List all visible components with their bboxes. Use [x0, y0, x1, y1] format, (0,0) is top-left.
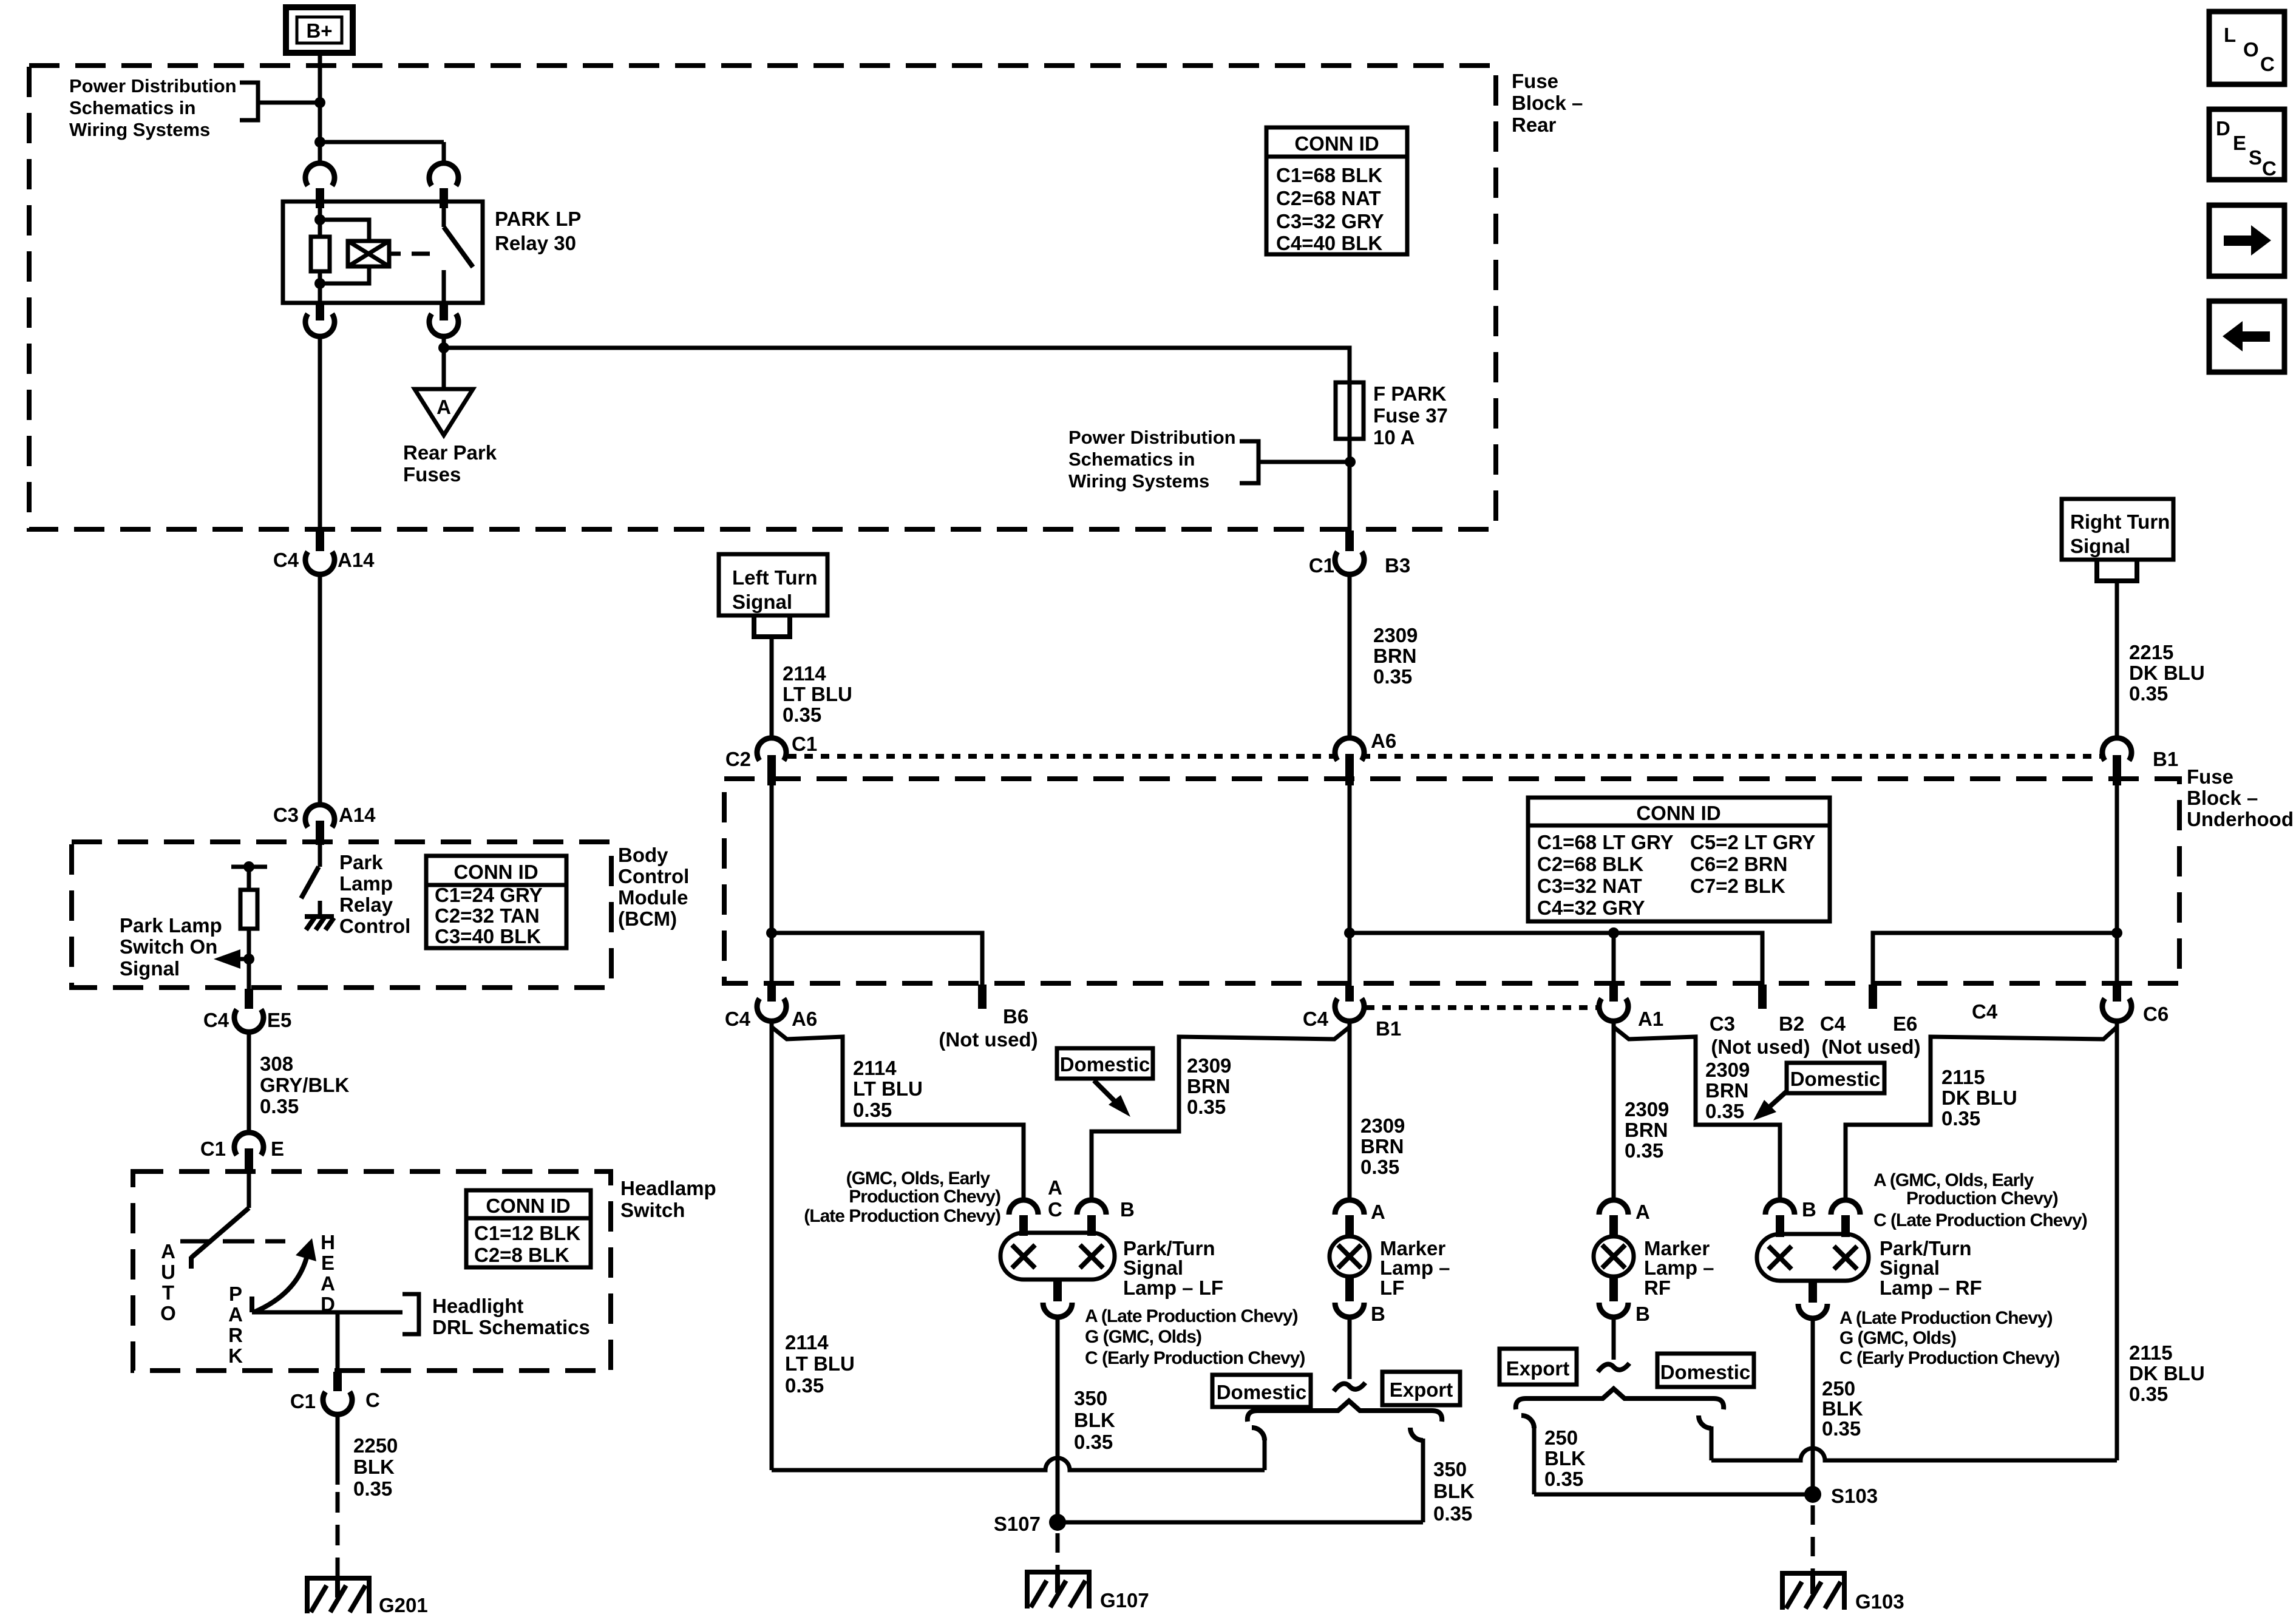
svg-text:C4=32 GRY: C4=32 GRY: [1537, 897, 1645, 919]
bracket right turn signal output: [2097, 560, 2137, 581]
svg-text:C5=2 LT GRY: C5=2 LT GRY: [1690, 831, 1815, 853]
svg-text:C4: C4: [203, 1009, 229, 1031]
wire C4/B1 down to marker lamp LF: [1348, 1021, 1352, 1200]
svg-text:F PARK: F PARK: [1373, 382, 1447, 405]
connector C4/A14 park lamp relay output: [273, 531, 375, 574]
connector pin A/C park turn LF: [1009, 1200, 1038, 1236]
svg-text:DK BLU: DK BLU: [2129, 662, 2205, 684]
node underhood bus right junction: [2111, 927, 2122, 938]
svg-text:DK BLU: DK BLU: [2129, 1362, 2205, 1385]
label ground G103: [1855, 1590, 1904, 1613]
wire end tilde marker LF: [1334, 1383, 1365, 1391]
wire underhood vertical right (B1 to C6): [2115, 785, 2119, 989]
wire marker LF B to variant splice: [1348, 1317, 1352, 1379]
wire resistor to C4/E5: [247, 929, 251, 990]
label HEAD position: [321, 1231, 335, 1315]
svg-text:Export: Export: [1390, 1378, 1453, 1401]
svg-text:10 A: 10 A: [1373, 426, 1415, 449]
label domestic variant splice LF box: [1212, 1375, 1311, 1407]
svg-text:C1: C1: [290, 1390, 316, 1412]
label variant GMC Olds RF: [1873, 1170, 2087, 1230]
svg-text:H: H: [321, 1231, 335, 1253]
svg-text:CONN ID: CONN ID: [486, 1195, 570, 1217]
lamp marker LF: [1330, 1236, 1370, 1276]
svg-text:0.35: 0.35: [1941, 1107, 1980, 1130]
svg-text:0.35: 0.35: [2129, 682, 2168, 705]
label pin B LF: [1120, 1198, 1135, 1221]
svg-text:B2: B2: [1779, 1012, 1804, 1035]
switch headlamp selector blade: [191, 1174, 249, 1269]
wire underhood vertical middle (A6 to C4/B1): [1348, 785, 1352, 989]
connector pin B marker LF: [1335, 1276, 1385, 1325]
svg-text:BLK: BLK: [353, 1456, 395, 1478]
svg-text:C1: C1: [792, 733, 817, 755]
connector pin B park turn LF: [1077, 1200, 1106, 1236]
wire A1 drop: [1612, 933, 1616, 989]
label pin variants out LF: [1085, 1306, 1305, 1368]
svg-text:PARK LP: PARK LP: [495, 208, 581, 230]
stub C4/E6 not used: [1820, 985, 1921, 1058]
connector pin relay coil top (86): [305, 163, 335, 208]
svg-text:A (Late Production Chevy): A (Late Production Chevy): [1839, 1308, 2053, 1328]
svg-text:Wiring Systems: Wiring Systems: [1068, 470, 1209, 492]
svg-text:E5: E5: [267, 1009, 291, 1031]
svg-text:Fuses: Fuses: [403, 463, 461, 486]
label pin C LF: [1048, 1198, 1062, 1221]
svg-text:C: C: [2262, 157, 2277, 180]
svg-text:R: R: [228, 1324, 243, 1346]
svg-text:BRN: BRN: [1705, 1079, 1749, 1102]
ground G107: [1025, 1572, 1092, 1609]
svg-text:Domestic: Domestic: [1060, 1053, 1150, 1076]
connector pin out park turn RF: [1798, 1281, 1827, 1318]
svg-text:350: 350: [1074, 1387, 1107, 1409]
svg-text:C4: C4: [273, 549, 299, 571]
switch relay contact: [444, 202, 473, 303]
label power distribution schematics (rear block): [1068, 427, 1236, 492]
svg-text:Control: Control: [618, 865, 689, 887]
brace variant splice RF: [1516, 1389, 1724, 1409]
connector C1/B3 fuse block rear output: [1309, 531, 1410, 577]
wire power distribution tap: [258, 101, 320, 105]
svg-text:Headlamp: Headlamp: [620, 1177, 716, 1199]
svg-text:Module: Module: [618, 886, 688, 909]
svg-text:C1: C1: [1309, 554, 1334, 577]
label wire 2309 BRN 0.35 (upper): [1373, 624, 1418, 688]
label wire 2114 LT BLU 0.35 (left vertical): [785, 1331, 855, 1397]
label park lamp switch on signal: [120, 914, 222, 980]
svg-text:2114: 2114: [783, 662, 826, 685]
svg-text:Rear Park: Rear Park: [403, 441, 497, 464]
label F PARK fuse: [1373, 382, 1448, 449]
svg-text:C2=8 BLK: C2=8 BLK: [474, 1244, 569, 1266]
svg-text:Power Distribution: Power Distribution: [1068, 427, 1236, 448]
svg-text:BRN: BRN: [1373, 645, 1417, 667]
reference box LOC: [2209, 12, 2284, 84]
label AUTO position: [160, 1240, 176, 1324]
connector pin C park turn RF: [1831, 1200, 1860, 1237]
wire mechanical link dashed: [180, 1239, 285, 1244]
label wire 250 BLK 0.35 (export): [1544, 1426, 1586, 1490]
svg-text:C6=2 BRN: C6=2 BRN: [1690, 853, 1787, 875]
ground G103: [1780, 1573, 1847, 1610]
wire export path LF to S107: [1058, 1520, 1423, 1525]
wire underhood bus middle to B2: [1350, 933, 1762, 989]
svg-text:Signal: Signal: [2070, 535, 2130, 557]
svg-text:Lamp: Lamp: [339, 872, 393, 895]
label wire 2114 LT BLU 0.35 (upper): [783, 662, 852, 726]
svg-text:A: A: [161, 1240, 175, 1263]
svg-text:LT BLU: LT BLU: [785, 1352, 855, 1375]
label export variant splice RF box: [1500, 1349, 1577, 1385]
connector pin out park turn LF: [1043, 1280, 1072, 1317]
wire C4/A6 diagonal branch to A/C pin: [772, 1027, 1024, 1200]
svg-text:Body: Body: [618, 844, 668, 866]
connector C4/A6 underhood output left: [725, 986, 817, 1030]
node underhood bus A1 junction: [1608, 927, 1619, 938]
lamp marker RF: [1594, 1236, 1634, 1276]
connector C1/C headlamp switch ground output: [290, 1372, 380, 1414]
label wire 2114 LT BLU 0.35 (branch): [853, 1057, 923, 1121]
svg-text:2309: 2309: [1187, 1054, 1231, 1077]
fuse block underhood dashed border: [724, 779, 2179, 983]
stub B6 not used: [939, 985, 1038, 1051]
wire 2114 LT BLU to C2/C1: [770, 637, 774, 739]
svg-text:0.35: 0.35: [1822, 1417, 1861, 1440]
wire resistor bottom: [318, 271, 322, 303]
wire domestic path RF to 2115 vertical (with hop): [1711, 1448, 2117, 1460]
svg-text:S103: S103: [1831, 1485, 1878, 1507]
CONN ID table fuse block rear: [1266, 127, 1407, 254]
svg-text:2115: 2115: [1941, 1066, 1985, 1088]
label power distribution schematics (top left): [69, 75, 237, 140]
bracket power distribution (top left): [240, 83, 258, 120]
connector pin A marker LF: [1335, 1200, 1385, 1238]
wire park lamp switch on signal arrow: [214, 949, 249, 969]
svg-text:E: E: [2233, 132, 2246, 154]
svg-text:A14: A14: [339, 804, 376, 826]
svg-text:B3: B3: [1385, 554, 1410, 577]
svg-text:Relay 30: Relay 30: [495, 232, 576, 254]
connector C3/A14 BCM input: [273, 804, 376, 845]
svg-text:Signal: Signal: [1880, 1256, 1940, 1279]
label wire 2250 BLK 0.35: [353, 1434, 398, 1500]
label pin A LF: [1048, 1176, 1062, 1199]
svg-text:C4: C4: [1972, 1000, 1998, 1023]
label pin variants out RF: [1839, 1308, 2059, 1368]
node park lamp switch signal junction: [243, 954, 254, 964]
wire PARK contact to output: [252, 1297, 402, 1373]
svg-text:C1: C1: [200, 1137, 226, 1160]
svg-text:Schematics in: Schematics in: [69, 97, 195, 118]
svg-text:2309: 2309: [1373, 624, 1418, 646]
wire underhood bus left to B6: [772, 933, 982, 989]
label body control module: [618, 844, 689, 930]
svg-text:BLK: BLK: [1074, 1409, 1115, 1431]
bracket power distribution (rear block): [1240, 441, 1258, 483]
wire 250 BLK from RF lamp to S103: [1811, 1318, 1815, 1494]
fuse F PARK Fuse 37 10A: [1336, 382, 1364, 439]
svg-text:C4: C4: [1820, 1012, 1846, 1035]
wire 308 GRY/BLK: [247, 1032, 251, 1135]
svg-text:Headlight: Headlight: [432, 1295, 523, 1317]
label export variant splice LF box: [1382, 1372, 1460, 1405]
svg-text:A: A: [1371, 1201, 1385, 1223]
svg-text:C2: C2: [725, 748, 751, 770]
svg-text:0.35: 0.35: [353, 1477, 392, 1500]
svg-text:Switch On: Switch On: [120, 935, 217, 958]
svg-text:A: A: [228, 1303, 243, 1326]
svg-text:2115: 2115: [2129, 1341, 2173, 1364]
connector C4/B1 underhood output middle: [1303, 986, 1401, 1040]
resistor relay internal: [311, 237, 330, 271]
svg-text:RF: RF: [1644, 1276, 1671, 1299]
svg-text:E6: E6: [1893, 1012, 1917, 1035]
svg-text:Export: Export: [1506, 1357, 1570, 1380]
svg-text:C7=2 BLK: C7=2 BLK: [1690, 875, 1785, 897]
svg-text:K: K: [228, 1344, 243, 1367]
svg-text:Fuse: Fuse: [1512, 70, 1558, 92]
wire export path RF to S103: [1534, 1493, 1813, 1497]
svg-text:A6: A6: [1371, 730, 1396, 752]
CONN ID table BCM: [426, 856, 566, 948]
svg-text:Park: Park: [339, 851, 383, 873]
label park/turn signal lamp LF: [1123, 1237, 1223, 1299]
wire B+ down to relay: [318, 53, 322, 165]
svg-text:Wiring Systems: Wiring Systems: [69, 119, 210, 140]
svg-text:C3: C3: [1710, 1012, 1735, 1035]
svg-text:Lamp – LF: Lamp – LF: [1123, 1276, 1223, 1299]
ground internal BCM driver: [305, 917, 334, 930]
svg-text:(Late Production Chevy): (Late Production Chevy): [804, 1206, 1000, 1226]
CONN ID table fuse block underhood: [1528, 798, 1830, 921]
node junction relay feed split: [314, 137, 325, 147]
label marker lamp RF: [1644, 1237, 1714, 1299]
label PARK position: [228, 1283, 243, 1367]
svg-text:C1=24 GRY: C1=24 GRY: [435, 884, 543, 906]
label marker lamp LF: [1380, 1237, 1450, 1299]
svg-text:C3=32 NAT: C3=32 NAT: [1537, 875, 1642, 897]
wire C6 branch to C pin park/turn RF: [1846, 1027, 2117, 1200]
wire 350 BLK from LF lamp to S107: [1056, 1317, 1060, 1522]
fuse block rear label: [1512, 70, 1583, 136]
wire dotted connector row top: [788, 754, 2101, 759]
label wire 350 BLK 0.35 (export): [1433, 1458, 1475, 1525]
ground G201: [305, 1578, 372, 1613]
svg-text:0.35: 0.35: [260, 1095, 299, 1117]
B+ battery feed box: [286, 7, 353, 53]
label wire 2115 DK BLU 0.35 (branch): [1941, 1066, 2017, 1130]
svg-text:C1=12 BLK: C1=12 BLK: [474, 1222, 580, 1244]
svg-text:BLK: BLK: [1822, 1397, 1863, 1420]
svg-text:0.35: 0.35: [1074, 1431, 1113, 1453]
svg-text:Underhood: Underhood: [2187, 808, 2294, 830]
body control module dashed box: [72, 842, 611, 988]
label park/turn signal lamp RF: [1880, 1237, 1982, 1299]
wire C4/A6 left vertical 2114 LT BLU: [770, 1021, 774, 1470]
svg-text:(Not used): (Not used): [1821, 1036, 1920, 1058]
svg-text:0.35: 0.35: [2129, 1383, 2168, 1405]
svg-text:Lamp –: Lamp –: [1644, 1256, 1714, 1279]
left turn signal box: [719, 554, 827, 615]
svg-text:C4=40 BLK: C4=40 BLK: [1276, 232, 1382, 254]
svg-text:Fuse 37: Fuse 37: [1373, 404, 1448, 427]
label wire 2215 DK BLU 0.35: [2129, 641, 2205, 705]
svg-text:Production Chevy): Production Chevy): [849, 1187, 1000, 1207]
svg-text:Power Distribution: Power Distribution: [69, 75, 237, 97]
svg-text:BRN: BRN: [1625, 1119, 1668, 1141]
svg-text:G201: G201: [379, 1594, 428, 1616]
connector pin B park turn RF: [1765, 1200, 1795, 1237]
label domestic variant RF box: [1787, 1063, 1884, 1093]
svg-text:250: 250: [1822, 1377, 1855, 1400]
label fuse block underhood: [2187, 765, 2294, 830]
wire C4/B1 branch to B pin park/turn LF: [1092, 1027, 1350, 1200]
wire A1 down to marker lamp RF: [1612, 1021, 1616, 1200]
svg-text:C6: C6: [2143, 1003, 2169, 1025]
node relay coil top junction: [314, 214, 325, 225]
wire underhood bus right to E6: [1873, 933, 2117, 989]
svg-text:A: A: [1048, 1176, 1062, 1199]
bracket headlight DRL schematics: [402, 1294, 419, 1334]
label variant GMC Olds LF: [804, 1168, 1000, 1226]
svg-text:Production Chevy): Production Chevy): [1906, 1188, 2058, 1209]
wire 2309 BRN from C1/B3 to A6: [1348, 574, 1352, 739]
svg-text:L: L: [2224, 24, 2236, 46]
relay K box PARK LP Relay 30: [283, 202, 483, 303]
wire S103 to ground G103: [1811, 1505, 1815, 1576]
label domestic variant LF box: [1057, 1048, 1153, 1079]
wire long feed to F PARK fuse: [444, 348, 1350, 382]
svg-text:(GMC, Olds, Early: (GMC, Olds, Early: [846, 1168, 991, 1188]
connector pin relay switch bottom (87): [429, 303, 458, 336]
label wire 250 BLK 0.35 (RF lamp): [1822, 1377, 1863, 1440]
lamp park/turn signal RF: [1757, 1234, 1869, 1281]
svg-text:Park Lamp: Park Lamp: [120, 914, 222, 937]
wire relay coil output down: [318, 336, 322, 532]
svg-text:A (Late Production Chevy): A (Late Production Chevy): [1085, 1306, 1298, 1326]
svg-text:0.35: 0.35: [1705, 1100, 1744, 1122]
svg-text:0.35: 0.35: [783, 703, 821, 726]
svg-text:C: C: [365, 1389, 380, 1411]
wire relay coil pin internal: [318, 202, 322, 237]
svg-text:DRL Schematics: DRL Schematics: [432, 1316, 590, 1338]
svg-text:C (Early Production Chevy): C (Early Production Chevy): [1839, 1348, 2059, 1368]
wire end tilde marker RF: [1598, 1363, 1629, 1372]
connector pin A marker RF: [1599, 1200, 1650, 1238]
wire rail to resistor: [247, 867, 251, 890]
svg-text:P: P: [229, 1283, 242, 1305]
svg-text:Block –: Block –: [2187, 787, 2258, 809]
wire 2215 DK BLU to B1: [2115, 581, 2119, 739]
svg-text:S107: S107: [994, 1513, 1041, 1535]
svg-text:C: C: [1048, 1198, 1062, 1221]
svg-text:D: D: [2216, 117, 2230, 140]
wire S107 to ground G107: [1056, 1533, 1060, 1576]
svg-text:C1=68 LT GRY: C1=68 LT GRY: [1537, 831, 1674, 853]
node splice S103: [1804, 1485, 1878, 1507]
wire domestic path LF to 2114 vertical (with hop): [772, 1458, 1265, 1470]
hook domestic path LF: [1252, 1428, 1265, 1470]
label ground G107: [1100, 1589, 1149, 1612]
label pin B RF: [1802, 1198, 1816, 1221]
svg-text:0.35: 0.35: [1544, 1468, 1583, 1490]
svg-text:E: E: [271, 1137, 284, 1160]
connector C2/C1 underhood input left: [725, 733, 817, 785]
svg-text:Block –: Block –: [1512, 92, 1583, 114]
svg-text:Relay: Relay: [339, 893, 393, 916]
svg-text:E: E: [321, 1252, 335, 1274]
svg-text:LT BLU: LT BLU: [853, 1077, 923, 1100]
svg-text:2309: 2309: [1705, 1059, 1750, 1081]
label C4 wire tag right: [1972, 1000, 1998, 1023]
wire coil branch top: [320, 220, 369, 241]
svg-text:B: B: [1120, 1198, 1135, 1221]
svg-text:C4: C4: [1303, 1008, 1329, 1030]
svg-text:C (Early Production Chevy): C (Early Production Chevy): [1085, 1348, 1305, 1368]
svg-text:2114: 2114: [785, 1331, 829, 1354]
svg-text:B6: B6: [1003, 1005, 1028, 1028]
svg-text:B1: B1: [2153, 748, 2178, 770]
node BCM rail junction: [243, 861, 254, 872]
svg-text:Lamp –: Lamp –: [1380, 1256, 1450, 1279]
svg-text:C3=32 GRY: C3=32 GRY: [1276, 210, 1384, 232]
wire coil actuation link (dashed): [389, 252, 430, 256]
svg-text:A (GMC, Olds, Early: A (GMC, Olds, Early: [1873, 1170, 2034, 1190]
svg-text:0.35: 0.35: [1373, 665, 1412, 688]
label wire 2309 BRN 0.35 (RF B branch): [1705, 1059, 1750, 1122]
svg-text:2114: 2114: [853, 1057, 897, 1079]
svg-text:(Not used): (Not used): [1711, 1036, 1810, 1058]
svg-text:C4: C4: [725, 1008, 751, 1030]
svg-text:C3=40 BLK: C3=40 BLK: [435, 925, 541, 947]
wire dotted connector row bottom (B1 to A1): [1366, 1005, 1598, 1010]
svg-text:0.35: 0.35: [1625, 1139, 1663, 1162]
svg-text:LT BLU: LT BLU: [783, 683, 852, 705]
svg-text:B+: B+: [306, 19, 332, 42]
svg-text:2309: 2309: [1625, 1098, 1669, 1120]
reference box arrow left: [2209, 301, 2284, 372]
svg-text:Signal: Signal: [732, 591, 792, 613]
node relay coil bottom junction: [314, 278, 325, 289]
connector pin relay coil bottom (85): [305, 303, 335, 336]
svg-text:Domestic: Domestic: [1217, 1381, 1307, 1403]
svg-text:Domestic: Domestic: [1660, 1361, 1751, 1383]
arrow domestic variant RF: [1753, 1091, 1787, 1120]
svg-text:C2=32 TAN: C2=32 TAN: [435, 904, 540, 927]
svg-text:Schematics in: Schematics in: [1068, 449, 1195, 470]
label wire 308 GRY/BLK 0.35: [260, 1053, 349, 1117]
wire to relay switch pin: [320, 142, 444, 165]
svg-text:Rear: Rear: [1512, 114, 1557, 136]
svg-text:Signal: Signal: [1123, 1256, 1183, 1279]
label wire 350 BLK 0.35: [1074, 1387, 1115, 1453]
svg-text:B: B: [1802, 1198, 1816, 1221]
connector pin relay switch top (30): [429, 163, 458, 208]
reference box DESC: [2209, 109, 2284, 180]
svg-text:0.35: 0.35: [1360, 1156, 1399, 1178]
node underhood bus middle junction: [1344, 927, 1355, 938]
svg-text:GRY/BLK: GRY/BLK: [260, 1074, 349, 1096]
stub C3/B2 not used: [1710, 985, 1810, 1058]
svg-text:0.35: 0.35: [1187, 1096, 1226, 1118]
svg-text:CONN ID: CONN ID: [1636, 802, 1720, 824]
connector B1 underhood input right: [2102, 738, 2178, 785]
node junction rear park fuses tap: [438, 342, 449, 353]
svg-text:350: 350: [1433, 1458, 1467, 1480]
svg-text:T: T: [162, 1281, 174, 1304]
svg-text:Control: Control: [339, 915, 410, 937]
